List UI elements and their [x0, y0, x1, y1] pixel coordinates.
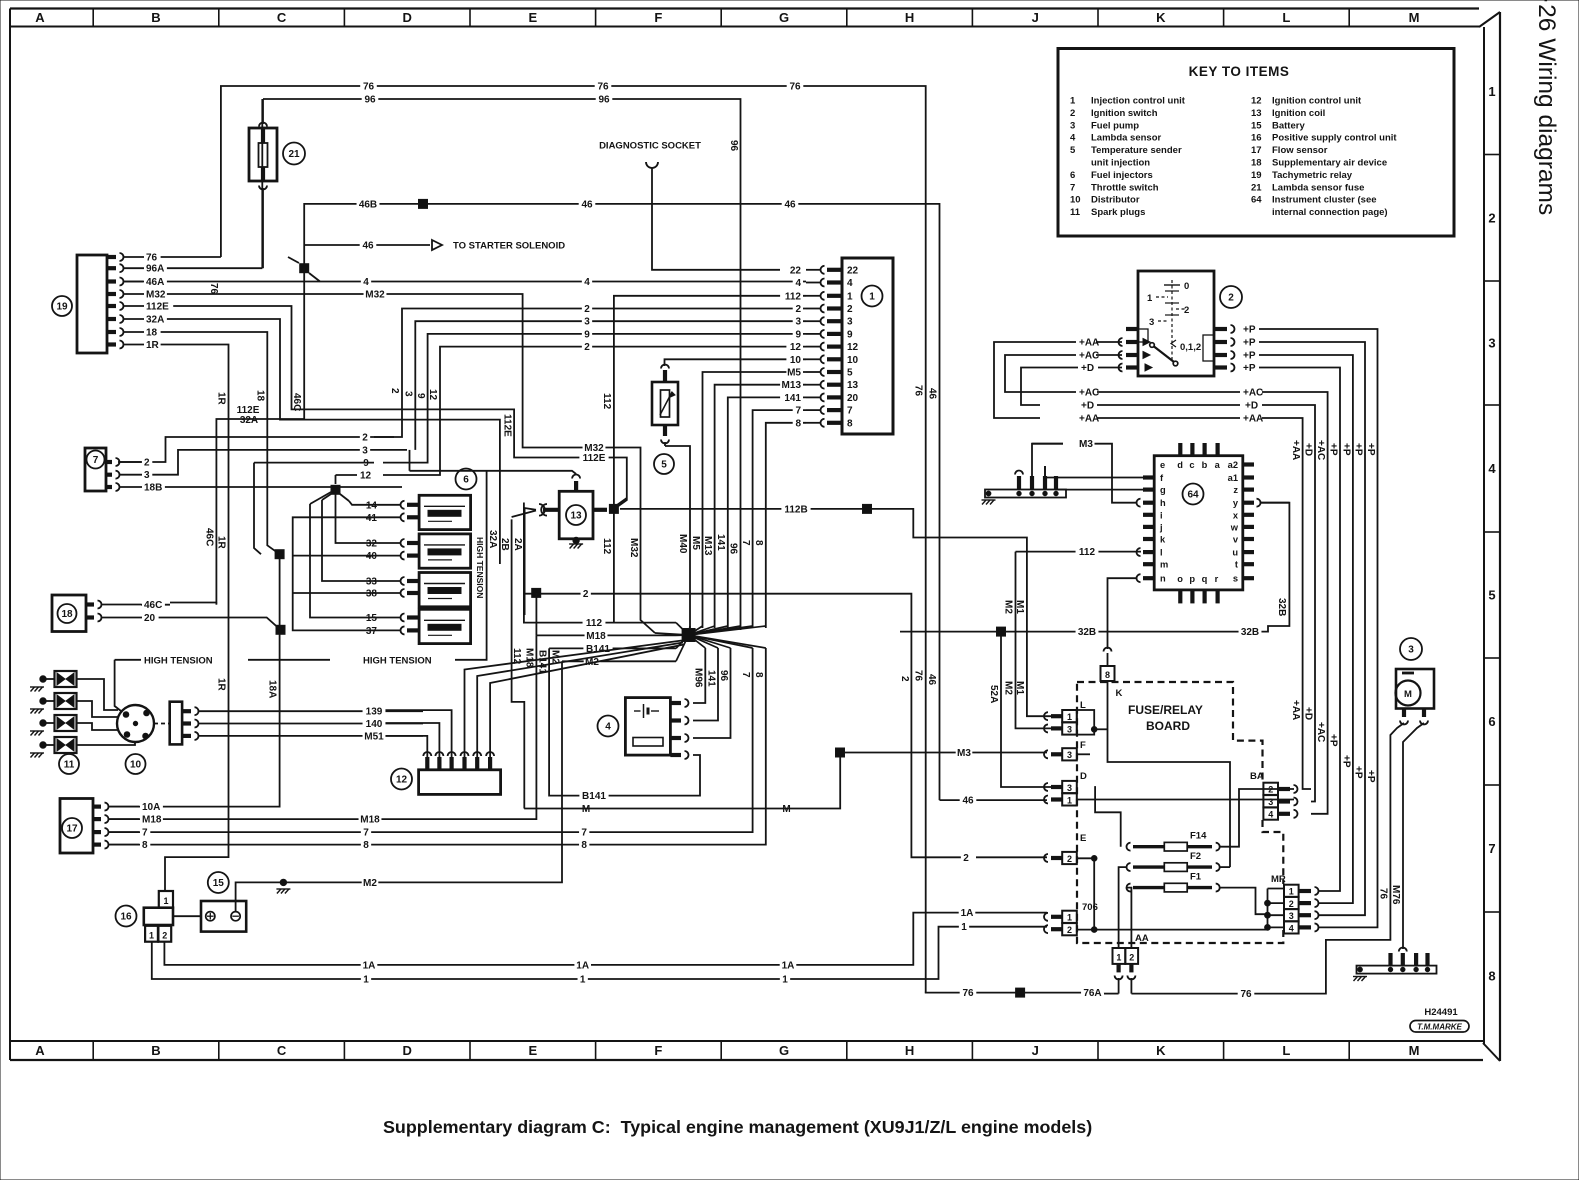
svg-text:A: A	[35, 10, 45, 25]
svg-text:FUSE/RELAY: FUSE/RELAY	[1128, 703, 1203, 717]
svg-text:Temperature sender: Temperature sender	[1091, 145, 1182, 156]
svg-text:4: 4	[363, 277, 369, 288]
svg-text:13: 13	[847, 380, 859, 391]
svg-text:Supplementary air device: Supplementary air device	[1272, 158, 1387, 169]
svg-text:1: 1	[1070, 96, 1076, 107]
svg-text:u: u	[1232, 548, 1238, 558]
svg-text:46: 46	[926, 674, 937, 686]
svg-text:M32: M32	[628, 538, 639, 558]
svg-text:Spark plugs: Spark plugs	[1091, 207, 1145, 218]
svg-text:1A: 1A	[782, 960, 795, 971]
svg-text:46: 46	[927, 388, 938, 400]
svg-text:96: 96	[718, 670, 729, 682]
svg-text:F: F	[654, 1043, 662, 1058]
svg-text:3: 3	[584, 317, 590, 328]
svg-text:2: 2	[1129, 953, 1134, 963]
svg-text:40: 40	[366, 551, 378, 562]
svg-text:2: 2	[1228, 293, 1234, 304]
svg-text:+P: +P	[1327, 443, 1338, 456]
svg-text:9: 9	[795, 329, 801, 340]
svg-text:M32: M32	[146, 290, 166, 301]
svg-text:18: 18	[255, 390, 266, 402]
svg-text:11: 11	[64, 760, 75, 771]
svg-text:20: 20	[144, 613, 156, 624]
svg-text:+AC: +AC	[1315, 722, 1326, 742]
svg-text:15: 15	[213, 878, 225, 889]
svg-text:10: 10	[1070, 195, 1081, 206]
svg-text:46: 46	[962, 796, 974, 807]
svg-text:Positive supply control unit: Positive supply control unit	[1272, 133, 1397, 144]
svg-text:2: 2	[389, 388, 400, 394]
svg-text:4: 4	[605, 722, 611, 733]
svg-text:M13: M13	[702, 536, 713, 556]
svg-text:+P: +P	[1365, 770, 1376, 783]
svg-text:s: s	[1233, 574, 1238, 584]
svg-text:0,1,2: 0,1,2	[1180, 342, 1201, 353]
svg-text:+P: +P	[1243, 363, 1256, 374]
svg-text:3: 3	[1067, 783, 1072, 793]
svg-text:2: 2	[583, 589, 589, 600]
svg-text:9: 9	[415, 393, 426, 399]
svg-text:32B: 32B	[1078, 627, 1096, 638]
svg-text:46C: 46C	[144, 600, 162, 611]
svg-text:H: H	[905, 10, 914, 25]
svg-text:38: 38	[366, 589, 378, 600]
svg-text:32A: 32A	[487, 530, 498, 548]
svg-text:46: 46	[581, 199, 593, 210]
svg-text:12: 12	[427, 389, 438, 401]
svg-text:r: r	[1215, 574, 1219, 584]
svg-text:J: J	[1032, 10, 1039, 25]
svg-text:Supplementary diagram C: Typi: Supplementary diagram C: Typical engine …	[383, 1117, 1092, 1137]
svg-text:2: 2	[963, 853, 969, 864]
svg-text:19: 19	[1251, 170, 1262, 181]
svg-text:e: e	[1160, 460, 1165, 470]
svg-text:M5: M5	[690, 536, 701, 550]
svg-text:M32: M32	[365, 290, 385, 301]
svg-text:2: 2	[1289, 899, 1294, 909]
svg-text:8: 8	[795, 418, 801, 429]
svg-text:C: C	[277, 10, 287, 25]
svg-text:1A: 1A	[363, 960, 376, 971]
svg-text:5: 5	[1070, 145, 1076, 156]
svg-text:M: M	[1409, 1043, 1420, 1058]
svg-text:K: K	[1116, 688, 1123, 699]
svg-text:9: 9	[363, 458, 369, 469]
svg-text:a: a	[1215, 460, 1221, 470]
svg-text:+AA: +AA	[1243, 414, 1263, 425]
svg-text:10: 10	[130, 760, 142, 771]
svg-text:g: g	[1160, 485, 1166, 495]
svg-text:C: C	[277, 1043, 287, 1058]
svg-text:7: 7	[1488, 841, 1495, 856]
svg-text:1A: 1A	[961, 908, 974, 919]
svg-text:Fuel injectors: Fuel injectors	[1091, 170, 1153, 181]
svg-text:5: 5	[1488, 588, 1495, 603]
svg-text:K: K	[1156, 1043, 1166, 1058]
svg-text:3: 3	[1488, 336, 1495, 351]
svg-text:76: 76	[597, 82, 609, 93]
svg-text:B: B	[151, 10, 160, 25]
svg-text:+D: +D	[1302, 443, 1313, 456]
svg-text:D: D	[403, 1043, 412, 1058]
svg-text:2: 2	[584, 304, 590, 315]
svg-text:Tachymetric relay: Tachymetric relay	[1272, 170, 1353, 181]
svg-text:96: 96	[728, 543, 739, 555]
svg-text:46A: 46A	[146, 277, 164, 288]
svg-text:M2: M2	[363, 878, 377, 889]
svg-text:1: 1	[847, 291, 853, 302]
svg-text:D: D	[1080, 771, 1087, 782]
svg-text:M18: M18	[360, 815, 380, 826]
svg-text:140: 140	[366, 719, 383, 730]
svg-text:2: 2	[1268, 785, 1273, 795]
svg-text:17: 17	[1251, 145, 1262, 156]
svg-text:41: 41	[366, 513, 378, 524]
svg-text:2: 2	[795, 304, 801, 315]
svg-text:2: 2	[847, 304, 853, 315]
svg-text:+AC: +AC	[1315, 440, 1326, 460]
svg-text:7: 7	[93, 455, 99, 466]
svg-text:7: 7	[847, 406, 853, 417]
svg-text:18B: 18B	[144, 483, 162, 494]
svg-text:76: 76	[913, 385, 924, 397]
svg-text:2: 2	[584, 342, 590, 353]
svg-text:52A: 52A	[988, 685, 999, 703]
svg-text:2B: 2B	[499, 538, 510, 551]
svg-text:c: c	[1189, 460, 1194, 470]
svg-text:7: 7	[1070, 182, 1075, 193]
svg-text:+D: +D	[1081, 401, 1094, 412]
svg-text:G: G	[779, 1043, 789, 1058]
svg-text:32B: 32B	[1276, 598, 1287, 616]
svg-text:2: 2	[1067, 925, 1072, 935]
svg-text:1: 1	[1067, 795, 1072, 805]
svg-text:3: 3	[1268, 797, 1273, 807]
svg-text:2: 2	[144, 458, 150, 469]
svg-text:141: 141	[706, 670, 717, 687]
svg-text:3: 3	[144, 470, 150, 481]
svg-text:M2: M2	[1003, 681, 1014, 695]
svg-text:+AA: +AA	[1079, 414, 1099, 425]
svg-text:H24491: H24491	[1424, 1007, 1458, 1018]
svg-text:46C: 46C	[204, 528, 215, 546]
svg-text:12: 12	[1251, 96, 1262, 107]
svg-text:a2: a2	[1228, 460, 1238, 470]
svg-text:a1: a1	[1228, 473, 1238, 483]
svg-text:4: 4	[1268, 810, 1273, 820]
svg-text:22: 22	[790, 265, 802, 276]
svg-text:6: 6	[1488, 714, 1495, 729]
svg-text:3: 3	[362, 445, 368, 456]
svg-text:112B: 112B	[784, 504, 807, 515]
svg-text:MR: MR	[1271, 874, 1286, 885]
svg-text:12: 12	[847, 342, 859, 353]
svg-text:Injection control unit: Injection control unit	[1091, 96, 1186, 107]
svg-text:+AA: +AA	[1079, 338, 1099, 349]
svg-text:F: F	[654, 10, 662, 25]
svg-text:76: 76	[789, 82, 801, 93]
svg-text:64: 64	[1187, 490, 1199, 501]
svg-text:z: z	[1233, 485, 1238, 495]
svg-text:1: 1	[1488, 84, 1495, 99]
svg-text:M2: M2	[1003, 600, 1014, 614]
svg-text:96: 96	[598, 94, 610, 105]
svg-text:n: n	[1160, 574, 1166, 584]
svg-text:M96: M96	[693, 668, 704, 688]
svg-text:8: 8	[753, 672, 764, 678]
svg-text:3: 3	[1408, 645, 1414, 656]
svg-text:76A: 76A	[1083, 988, 1101, 999]
svg-text:+AC: +AC	[1243, 388, 1263, 399]
svg-text:Lambda sensor: Lambda sensor	[1091, 133, 1162, 144]
svg-text:1R: 1R	[216, 392, 227, 406]
svg-text:21: 21	[1251, 182, 1262, 193]
svg-text:22: 22	[847, 265, 859, 276]
svg-text:5: 5	[661, 460, 667, 471]
svg-text:Lambda sensor fuse: Lambda sensor fuse	[1272, 182, 1364, 193]
svg-text:76: 76	[363, 82, 375, 93]
svg-text:112E: 112E	[583, 453, 606, 464]
svg-text:M5: M5	[787, 368, 801, 379]
svg-text:8: 8	[142, 840, 148, 851]
svg-text:1: 1	[149, 931, 154, 941]
svg-text:x: x	[1233, 510, 1239, 520]
svg-text:15: 15	[366, 613, 378, 624]
svg-text:+P: +P	[1243, 325, 1256, 336]
svg-text:76: 76	[962, 988, 974, 999]
svg-text:k: k	[1160, 535, 1166, 545]
svg-text:76: 76	[146, 253, 158, 264]
svg-text:h: h	[1160, 498, 1166, 508]
svg-text:t: t	[1235, 560, 1238, 570]
svg-text:BA: BA	[1250, 771, 1264, 782]
svg-text:Ignition coil: Ignition coil	[1272, 108, 1325, 119]
svg-text:4: 4	[1289, 923, 1294, 933]
svg-text:2: 2	[1067, 854, 1072, 864]
svg-text:6: 6	[463, 475, 469, 486]
svg-text:96A: 96A	[146, 264, 164, 275]
svg-text:M76: M76	[1390, 885, 1401, 905]
svg-text:1: 1	[1289, 887, 1294, 897]
svg-text:141: 141	[715, 534, 726, 551]
svg-text:+AC: +AC	[1079, 388, 1099, 399]
svg-text:7: 7	[581, 828, 587, 839]
svg-text:4: 4	[584, 277, 590, 288]
svg-text:E: E	[528, 10, 537, 25]
svg-text:2: 2	[899, 676, 910, 682]
svg-text:L: L	[1282, 10, 1290, 25]
svg-text:q: q	[1202, 574, 1208, 584]
svg-text:+P: +P	[1243, 338, 1256, 349]
svg-text:i: i	[1160, 510, 1163, 520]
svg-text:7: 7	[795, 406, 801, 417]
svg-text:4: 4	[1070, 133, 1076, 144]
svg-text:18: 18	[146, 328, 158, 339]
svg-text:96: 96	[364, 94, 376, 105]
svg-text:F: F	[1080, 740, 1086, 751]
svg-text:3: 3	[403, 391, 414, 397]
svg-text:M18: M18	[586, 631, 606, 642]
svg-text:10: 10	[790, 355, 802, 366]
svg-text:+P: +P	[1352, 766, 1363, 779]
svg-text:1: 1	[1147, 293, 1153, 304]
svg-text:F2: F2	[1190, 851, 1201, 862]
svg-text:Ignition control unit: Ignition control unit	[1272, 96, 1362, 107]
svg-text:3: 3	[795, 317, 801, 328]
svg-text:6: 6	[1070, 170, 1075, 181]
svg-text:HIGH TENSION: HIGH TENSION	[363, 655, 432, 666]
svg-text:HIGH TENSION: HIGH TENSION	[475, 537, 485, 598]
svg-text:H: H	[905, 1043, 914, 1058]
svg-text:8: 8	[581, 840, 587, 851]
svg-text:1: 1	[363, 975, 369, 986]
svg-text:7: 7	[740, 540, 751, 546]
svg-text:HIGH TENSION: HIGH TENSION	[144, 655, 213, 666]
svg-text:o: o	[1177, 574, 1183, 584]
svg-text:3: 3	[1149, 317, 1154, 328]
svg-text:20: 20	[847, 393, 859, 404]
svg-text:8: 8	[1105, 670, 1110, 680]
svg-text:2: 2	[1184, 305, 1189, 316]
svg-text:E: E	[1080, 833, 1086, 844]
svg-text:Battery: Battery	[1272, 120, 1305, 131]
svg-text:112: 112	[785, 291, 802, 302]
svg-text:1: 1	[1067, 712, 1072, 722]
svg-text:3: 3	[1289, 911, 1294, 921]
svg-text:1R: 1R	[216, 678, 227, 692]
svg-text:TO STARTER SOLENOID: TO STARTER SOLENOID	[453, 241, 565, 252]
svg-text:17: 17	[66, 824, 78, 835]
svg-text:+P: +P	[1365, 443, 1376, 456]
svg-text:18: 18	[61, 609, 73, 620]
svg-text:Ignition switch: Ignition switch	[1091, 108, 1158, 119]
svg-text:1: 1	[1067, 913, 1072, 923]
svg-text:1: 1	[782, 975, 788, 986]
svg-text:76: 76	[208, 283, 219, 295]
svg-text:+AA: +AA	[1290, 440, 1301, 460]
svg-text:M: M	[1404, 689, 1412, 700]
svg-text:37: 37	[366, 626, 378, 637]
svg-text:4: 4	[847, 278, 853, 289]
svg-text:112: 112	[1079, 547, 1096, 558]
svg-text:7: 7	[363, 828, 369, 839]
svg-text:B141: B141	[582, 791, 606, 802]
svg-text:Throttle switch: Throttle switch	[1091, 182, 1159, 193]
svg-text:+AC: +AC	[1079, 351, 1099, 362]
svg-text:Distributor: Distributor	[1091, 195, 1140, 206]
svg-text:Instrument cluster (see: Instrument cluster (see	[1272, 195, 1377, 206]
svg-text:unit injection: unit injection	[1091, 158, 1150, 169]
svg-text:+D: +D	[1081, 363, 1094, 374]
svg-text:p: p	[1189, 574, 1195, 584]
svg-text:F1: F1	[1190, 872, 1202, 883]
svg-text:46B: 46B	[359, 199, 377, 210]
svg-text:0: 0	[1184, 281, 1189, 292]
svg-text:m: m	[1160, 560, 1168, 570]
svg-text:112: 112	[601, 538, 612, 555]
svg-text:32A: 32A	[240, 415, 258, 426]
svg-text:+AA: +AA	[1290, 700, 1301, 720]
svg-text:21: 21	[288, 149, 300, 160]
svg-text:E: E	[528, 1043, 537, 1058]
svg-text:M40: M40	[677, 534, 688, 554]
svg-text:b: b	[1202, 460, 1208, 470]
svg-text:76: 76	[1240, 989, 1252, 1000]
svg-text:A: A	[35, 1043, 45, 1058]
svg-text:K: K	[1156, 10, 1166, 25]
svg-text:T.M.MARKE: T.M.MARKE	[1417, 1023, 1462, 1032]
svg-text:2: 2	[162, 931, 167, 941]
svg-text:18A: 18A	[267, 680, 278, 698]
svg-text:M3: M3	[957, 748, 971, 759]
svg-text:19: 19	[56, 302, 68, 313]
svg-text:1: 1	[961, 922, 967, 933]
svg-text:2: 2	[362, 433, 368, 444]
svg-text:1A: 1A	[576, 960, 589, 971]
svg-text:+D: +D	[1245, 401, 1258, 412]
svg-text:L: L	[1282, 1043, 1290, 1058]
svg-text:16: 16	[1251, 133, 1262, 144]
svg-text:46: 46	[362, 241, 374, 252]
svg-text:16: 16	[120, 912, 132, 923]
svg-text:3: 3	[1070, 120, 1075, 131]
svg-text:DIAGNOSTIC SOCKET: DIAGNOSTIC SOCKET	[599, 141, 701, 152]
svg-text:12: 12	[396, 775, 408, 786]
svg-text:M18: M18	[524, 648, 535, 668]
svg-text:8: 8	[363, 840, 369, 851]
svg-text:7: 7	[740, 672, 751, 678]
svg-text:4: 4	[795, 278, 801, 289]
svg-text:8: 8	[753, 540, 764, 546]
svg-text:112: 112	[601, 393, 612, 410]
svg-text:46C: 46C	[291, 393, 302, 411]
svg-text:Fuel pump: Fuel pump	[1091, 120, 1139, 131]
svg-text:1R: 1R	[146, 340, 160, 351]
svg-text:AA: AA	[1135, 933, 1149, 944]
svg-text:3: 3	[1067, 750, 1072, 760]
svg-text:+P: +P	[1340, 755, 1351, 768]
svg-text:9: 9	[847, 329, 853, 340]
svg-text:Flow sensor: Flow sensor	[1272, 145, 1328, 156]
svg-text:8: 8	[1488, 969, 1495, 984]
svg-text:M: M	[1409, 10, 1420, 25]
svg-text:139: 139	[366, 707, 383, 718]
svg-text:3: 3	[847, 317, 853, 328]
svg-text:96: 96	[728, 140, 739, 152]
svg-text:j: j	[1159, 522, 1163, 532]
svg-text:10A: 10A	[142, 802, 160, 813]
svg-text:32A: 32A	[146, 315, 164, 326]
svg-text:4: 4	[1488, 461, 1496, 476]
svg-text:B141: B141	[537, 650, 548, 674]
svg-text:13: 13	[1251, 108, 1262, 119]
svg-text:+P: +P	[1327, 734, 1338, 747]
svg-text:706: 706	[1082, 902, 1098, 913]
svg-text:76: 76	[913, 670, 924, 682]
svg-text:1: 1	[580, 975, 586, 986]
svg-text:l: l	[1160, 548, 1163, 558]
svg-text:141: 141	[784, 393, 801, 404]
svg-text:14: 14	[366, 500, 378, 511]
svg-text:11: 11	[1070, 207, 1081, 218]
svg-text:D: D	[403, 10, 412, 25]
svg-text:internal connection page): internal connection page)	[1272, 207, 1388, 218]
svg-text:+P: +P	[1340, 443, 1351, 456]
svg-text:BOARD: BOARD	[1146, 719, 1190, 733]
svg-text:y: y	[1233, 498, 1239, 508]
svg-text:+P: +P	[1243, 351, 1256, 362]
